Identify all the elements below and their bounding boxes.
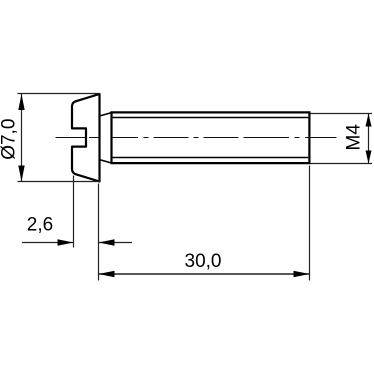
svg-text:Ø7,0: Ø7,0	[0, 119, 20, 160]
svg-text:M4: M4	[344, 124, 365, 151]
svg-text:2,6: 2,6	[27, 215, 53, 236]
svg-text:30,0: 30,0	[185, 251, 222, 272]
